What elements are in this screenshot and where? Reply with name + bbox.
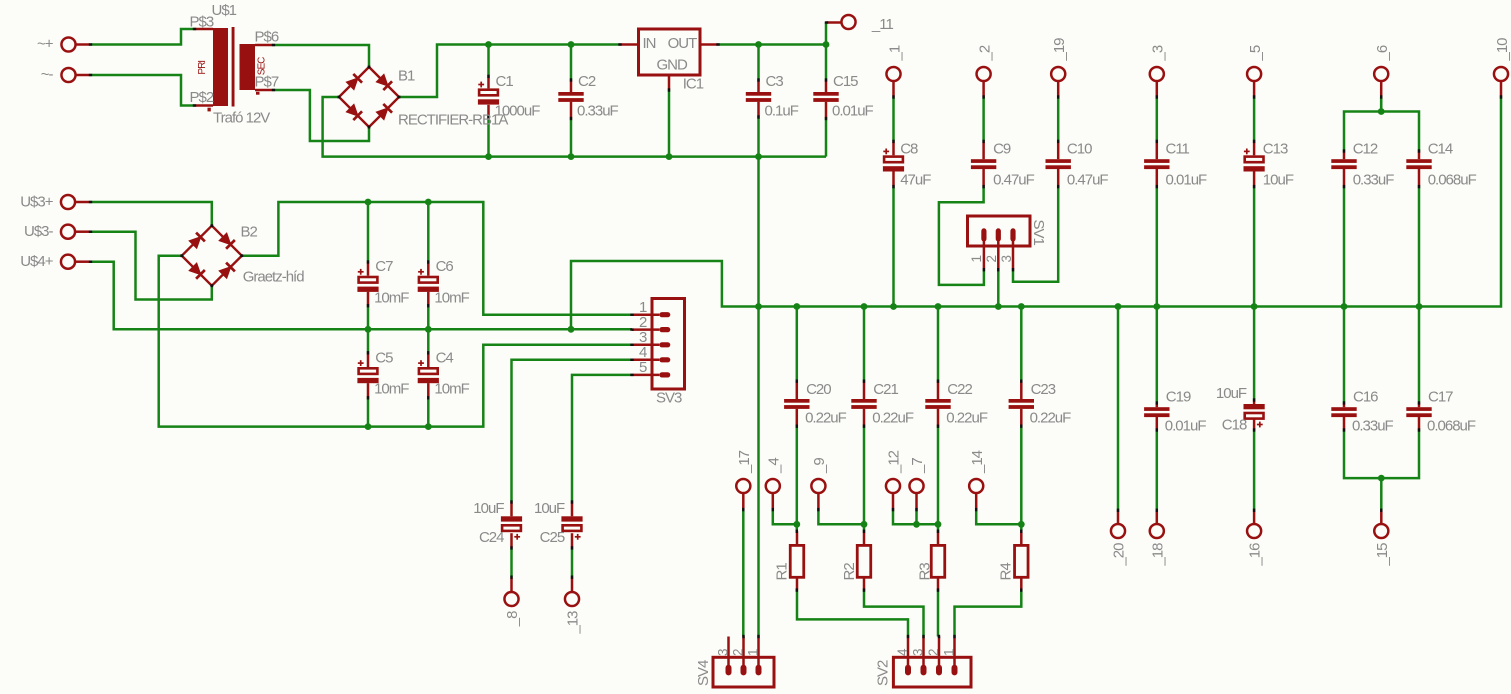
R3 bottom lead [937,577,940,590]
C21 top lead [863,381,866,399]
svg-text:P$3: P$3 [190,14,214,31]
pin _15 [1374,510,1388,538]
wire pin _17 to SV4 pin 2 [742,510,745,637]
capacitor C18 [1244,404,1265,427]
svg-text:10mF: 10mF [374,380,409,397]
svg-text:_5: _5 [1247,45,1264,61]
SV3 pin 3 lead [632,344,659,347]
svg-text:1: 1 [942,649,957,656]
junction midbus C21 [861,303,868,310]
svg-text:1: 1 [746,649,761,656]
svg-text:_4: _4 [765,458,782,474]
C21 bottom lead [863,409,866,426]
svg-text:2: 2 [984,256,999,263]
junction _7 [913,521,920,528]
junction C2 gnd [568,153,575,160]
svg-text:0.068uF: 0.068uF [1427,417,1476,434]
C25 top lead [571,502,574,516]
pin _2 [977,67,991,97]
pin _14 [969,479,983,510]
pin _3 [1150,67,1164,97]
capacitor C4 [418,360,439,383]
svg-text:10uF: 10uF [534,500,565,517]
pin _9 [811,479,825,510]
wire P$7 to bridge B1 bottom vertex [274,90,370,141]
svg-text:C22: C22 [947,381,972,398]
C10 top lead [1057,141,1060,159]
junction C2 top [568,41,575,48]
wire center rail to C5 top [367,329,370,353]
svg-text:C6: C6 [436,258,454,275]
svg-text:_7: _7 [909,458,926,474]
svg-text:C5: C5 [375,349,393,366]
SV3 pin 1 lead [632,313,659,316]
SV3 pin 1 contact [659,312,670,317]
C15 top lead [825,80,828,92]
svg-text:C24: C24 [479,529,504,546]
svg-text:~+: ~+ [37,36,54,53]
wire pin _9 to R2 node [818,510,864,525]
junction midbus SV4 [755,303,762,310]
svg-text:SV4: SV4 [695,660,712,686]
capacitor C20 [784,399,809,409]
capacitor C7 [357,269,378,292]
wire C15 top stub [825,45,828,81]
pin _19 [1051,67,1065,97]
svg-text:0.22uF: 0.22uF [805,409,847,426]
junction midbus C14 [1416,303,1423,310]
R3 top lead [937,531,940,545]
pin _10 [1494,67,1508,97]
SV3 pin 2 lead [632,328,659,331]
capacitor C21 [851,399,876,409]
wire SV3 pin 5 to C25 top [572,375,632,502]
capacitor C24 [501,516,522,539]
C7 bottom lead [367,292,370,306]
svg-text:10mF: 10mF [434,289,469,306]
wire U$4+ to center tap rail to SV3 pin 2 [91,262,633,330]
svg-text:0.33uF: 0.33uF [1352,417,1394,434]
wire pair node to C12 and C14 tops [1344,112,1419,152]
SV3 pin 5 contact [659,372,670,377]
svg-text:_6: _6 [1374,45,1391,61]
wire AC2 input to transformer P$2 [91,75,195,106]
C15 bottom lead [825,102,828,119]
svg-text:P$2: P$2 [190,89,214,106]
SV2 pin 2 contact [936,665,942,676]
svg-text:_10: _10 [1494,38,1511,62]
R1 top lead [796,531,799,545]
svg-text:2: 2 [731,649,746,656]
SV2 pin 2 lead [938,637,941,670]
svg-text:_12: _12 [886,450,903,474]
wire C23 bottom to R4 top [1020,426,1023,531]
wire P$6 to bridge B1 top vertex [274,45,370,68]
wire C8 bottom to mid bus [892,187,895,307]
svg-text:0.47uF: 0.47uF [993,171,1035,188]
capacitor C25 [561,516,582,539]
wire C1 top stub [487,45,490,77]
svg-text:C18: C18 [1222,417,1247,434]
junction midbus C23 [1018,303,1025,310]
SV1 pin 1 contact [981,228,986,241]
junction R3 top [935,521,942,528]
svg-text:0.47uF: 0.47uF [1067,171,1109,188]
svg-text:C25: C25 [540,529,565,546]
SV4 pin 1 contact [756,665,762,676]
wire center rail to C4 top [427,329,430,353]
C9 bottom lead [982,169,985,187]
C2 bottom lead [570,102,573,119]
wire C12 bottom to mid bus [1343,187,1346,307]
junction midbus C12 [1341,303,1348,310]
C24 top lead [510,502,513,516]
svg-text:SV3: SV3 [656,389,682,406]
wire pin _4 to R1 node [773,510,797,525]
pin _4 [766,479,780,510]
bridge rectifier B2 [180,224,243,287]
wire long vertical C3 to ground bus to SV4 pin 1 [757,117,760,637]
wire C11 bottom to mid bus [1156,187,1159,307]
wire C1 bottom to ground rail [487,117,490,157]
wire C19 bottom to pin _18 [1156,430,1159,510]
C19 top lead [1156,403,1159,407]
pin _12 [886,479,900,510]
IC1 pin GND [668,75,671,90]
C5 top lead [367,353,370,367]
svg-text:C3: C3 [766,73,784,90]
svg-text:B2: B2 [241,224,258,241]
svg-text:_9: _9 [811,458,828,474]
C22 top lead [937,381,940,399]
svg-text:0.22uF: 0.22uF [1030,409,1072,426]
SV3 pin 2 contact [659,327,670,332]
transformer pin P$7 [255,89,274,92]
capacitor C16 [1331,407,1356,417]
svg-text:C12: C12 [1353,141,1378,158]
svg-text:SV2: SV2 [875,660,892,686]
wire C13 bottom to mid bus [1253,187,1256,307]
svg-text:C7: C7 [375,258,393,275]
R2 top lead [863,531,866,545]
svg-text:Graetz-híd: Graetz-híd [243,268,305,285]
svg-text:P$6: P$6 [255,29,279,46]
transformer pin P$3 [195,28,214,31]
pin _1 [886,67,900,97]
wire mid bus to C17 top [1418,307,1421,404]
svg-text:C20: C20 [806,381,831,398]
svg-text:SV1: SV1 [1030,220,1047,246]
junction midbus SV1 [995,303,1002,310]
SV2 pin 1 lead [953,637,956,670]
svg-text:C8: C8 [900,141,918,158]
junction midbus C22 [935,303,942,310]
junction C4 bottom [425,423,432,430]
C20 top lead [796,381,799,399]
capacitor C12 [1331,159,1356,169]
C12 bottom lead [1343,169,1346,187]
svg-text:R1: R1 [773,563,790,581]
C11 top lead [1156,141,1159,159]
wire mid bus to C22 top [937,307,940,382]
capacitor C10 [1046,159,1071,169]
wire C6 bottom to center rail [427,306,430,330]
wire pin _2 down to cap [982,97,985,141]
svg-text:3: 3 [999,256,1014,263]
capacitor C3 [746,92,771,102]
pin _8 [504,577,518,606]
capacitor C9 [971,159,996,169]
connector SV3 body [652,299,685,390]
svg-text:_17: _17 [736,450,753,474]
C13 top lead [1253,141,1256,155]
junction midbus C11 [1153,303,1160,310]
svg-text:10mF: 10mF [434,380,469,397]
svg-text:Trafó 12V: Trafó 12V [213,110,270,127]
capacitor C2 [558,92,583,102]
connector SV4 body [713,657,774,687]
junction C3 gnd [755,153,762,160]
capacitor C6 [418,269,439,292]
svg-text:C10: C10 [1067,141,1092,158]
svg-text:0.01uF: 0.01uF [1166,171,1208,188]
svg-text:PRI: PRI [197,61,208,75]
C12 top lead [1343,151,1346,159]
capacitor C8 [883,149,904,172]
capacitor C23 [1009,399,1034,409]
junction _15 pair [1378,475,1385,482]
C9 top lead [982,141,985,159]
resistor R2 [857,545,871,577]
svg-text:C11: C11 [1166,141,1190,158]
svg-text:IN: IN [643,35,656,52]
wire C18 bottom to pin _16 [1253,430,1256,510]
wire pin _3 down to cap [1156,97,1159,141]
wire mid ground bus with branch to SV3 pin 2 riser [571,97,1501,329]
C6 bottom lead [427,292,430,306]
connector SV2 body [893,657,971,687]
transformer pin P$2 [195,104,214,107]
svg-text:_3: _3 [1150,45,1167,61]
svg-text:C21: C21 [873,381,898,398]
resistor R1 [790,545,804,577]
wire C21 bottom to R2 top [863,426,866,531]
SV4 pin 3 lead [727,637,730,670]
C22 bottom lead [937,409,940,426]
capacitor C5 [357,360,378,383]
wire mid bus to C21 top [863,307,866,382]
wire C24 bottom to pin _8 [510,548,513,577]
C6 top lead [427,262,430,276]
svg-text:U$3+: U$3+ [20,194,54,211]
resistor R3 [931,545,945,577]
SV4 pin 2 contact [741,665,747,676]
C3 bottom lead [757,102,760,117]
svg-text:C16: C16 [1353,389,1378,406]
pin _20 [1111,510,1125,538]
svg-text:C19: C19 [1166,389,1191,406]
wire C3 top stub [757,45,760,81]
svg-text:10uF: 10uF [473,500,504,517]
transformer U$1 core [232,27,235,107]
junction R2 top [861,521,868,528]
capacitor C17 [1406,407,1431,417]
wire IC1 GND to ground rail [668,90,671,157]
junction SV3 pin2 riser [568,326,575,333]
svg-text:_15: _15 [1374,543,1391,567]
C14 bottom lead [1418,169,1421,187]
svg-text:_11: _11 [871,16,894,33]
wire C14 bottom to mid bus [1418,187,1421,307]
wire B2 plus output to C7 C6 tops and SV3 pin 1 [243,202,633,315]
SV1 pin 3 contact [1010,228,1015,241]
wire B2 minus to C5 C4 bottoms and SV3 pin 3 [159,256,632,427]
svg-text:~-: ~- [41,66,54,83]
wire R1 bottom to SV2 pin 4 [797,590,908,636]
SV1 pin 2 contact [996,228,1001,241]
svg-text:IC1: IC1 [683,76,704,93]
wire pin _7 to R3 node [915,510,918,525]
junction midbus C20 [793,303,800,310]
svg-text:_13: _13 [565,611,582,635]
resistor R4 [1015,545,1029,577]
svg-text:R3: R3 [916,563,933,581]
transformer secondary origin mark [256,92,260,95]
wire SV3 pin 4 to C24 top [512,360,633,502]
C14 top lead [1418,151,1421,159]
capacitor C1 [478,82,499,105]
junction C1 gnd [485,153,492,160]
junction midbus C13 [1251,303,1258,310]
pin _18 [1150,510,1164,538]
C18 top lead [1253,400,1256,404]
svg-text:3: 3 [911,649,926,656]
svg-text:47uF: 47uF [900,171,931,188]
pin ~+ [61,37,90,51]
IC1 pin OUT [700,43,718,46]
C17 top lead [1418,403,1421,407]
wire pin _19 down to cap [1057,97,1060,141]
junction R1 top [793,521,800,528]
wire mid bus to C16 top [1343,307,1346,404]
junction C1 top [485,41,492,48]
svg-text:_2: _2 [976,45,993,61]
svg-text:2: 2 [926,649,941,656]
svg-text:RECTIFIER-RB1A: RECTIFIER-RB1A [398,112,508,129]
SV2 pin 3 lead [922,637,925,670]
pin ~- [61,68,90,82]
svg-text:C4: C4 [436,349,454,366]
wire C2 top stub [570,45,573,81]
C13 bottom lead [1253,172,1256,187]
svg-text:U$3-: U$3- [24,223,54,240]
wire R4 bottom to SV2 pin 1 [955,590,1022,636]
svg-text:1000uF: 1000uF [495,103,541,120]
wire C4 bottom to minus rail [427,398,430,427]
svg-text:B1: B1 [398,67,415,84]
C2 top lead [570,80,573,92]
transformer origin mark [208,108,211,112]
SV4 pin 3 contact [726,665,732,676]
R4 top lead [1020,531,1023,545]
wire C5 bottom to minus rail [367,398,370,427]
connector SV1 body [968,216,1031,246]
wire C2 bottom to ground rail [570,119,573,157]
capacitor C22 [925,399,950,409]
svg-text:R4: R4 [997,563,1014,581]
pin _11 [827,15,856,29]
SV4 pin 2 lead [742,637,745,670]
svg-text:1: 1 [969,256,984,263]
transformer pin P$6 [255,44,274,47]
wire C16 C17 bottoms joined [1344,430,1419,478]
wire pin _1 down to cap [892,97,895,141]
svg-text:C17: C17 [1428,389,1453,406]
wire mid bus to C18 top [1253,307,1256,401]
SV4 pin 1 lead [757,637,760,670]
wire mid bus to C19 top [1156,307,1159,404]
R4 bottom lead [1020,577,1023,590]
wire AC1 input to transformer P$3 [91,29,195,45]
junction C7 top [365,199,372,206]
C19 bottom lead [1156,417,1159,430]
C3 top lead [757,80,760,92]
svg-text:_1: _1 [886,45,903,61]
wire C25 bottom to pin _13 [571,548,574,577]
C25 bottom lead [571,533,574,548]
pin _13 [565,577,579,606]
wire C10 bottom to SV1 pin 3 [1013,187,1058,282]
C23 top lead [1020,381,1023,399]
wire C22 bottom to R3 top [937,426,940,531]
svg-text:_20: _20 [1111,543,1128,567]
svg-text:C15: C15 [833,73,858,90]
svg-text:5: 5 [639,359,647,376]
C4 bottom lead [427,383,430,398]
SV3 pin 4 lead [632,359,659,362]
svg-text:_19: _19 [1051,38,1068,62]
SV2 pin 4 contact [905,665,911,676]
svg-text:_18: _18 [1149,543,1166,567]
svg-text:OUT: OUT [668,35,698,52]
SV3 pin 4 contact [659,357,670,362]
svg-text:0.22uF: 0.22uF [872,409,914,426]
SV3 pin 5 lead [632,374,659,377]
junction C6 top [425,199,432,206]
wire pin _5 down to cap [1253,97,1256,141]
wire R3 bottom to SV2 pin 2 [937,590,940,636]
svg-text:10uF: 10uF [1263,171,1294,188]
svg-text:_16: _16 [1247,543,1264,567]
wire C20 bottom to R1 top [796,426,799,531]
wire pair node down to pin _15 [1380,478,1383,510]
C18 bottom lead [1253,419,1256,430]
wire pin _6 stub [1380,97,1383,112]
junction C7 mid [365,326,372,333]
svg-text:_8: _8 [504,611,521,627]
svg-text:GND: GND [657,56,689,73]
junction IC1 gnd [666,153,673,160]
svg-text:0.01uF: 0.01uF [1165,417,1207,434]
svg-text:_14: _14 [969,450,986,474]
svg-text:C23: C23 [1031,381,1056,398]
capacitor C11 [1144,159,1169,169]
R2 bottom lead [863,577,866,590]
svg-text:SEC: SEC [256,57,267,75]
junction C6 mid [425,326,432,333]
svg-text:0.33uF: 0.33uF [577,103,619,120]
wire C7 bottom to center rail [367,306,370,330]
